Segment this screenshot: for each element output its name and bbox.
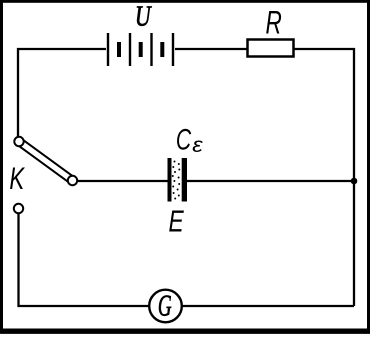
svg-text:E: E (169, 204, 185, 238)
wire top-left horizontal (corner to battery) (18, 49, 106, 136)
wire capacitor to junction (187, 180, 354, 182)
svg-text:C: C (176, 124, 192, 156)
capacitor left plate (168, 158, 172, 202)
switch open terminal circle lower (14, 204, 23, 213)
svg-text:ε: ε (192, 133, 204, 157)
node junction (351, 178, 358, 185)
battery short plate 3 (160, 42, 164, 57)
capacitor right plate (182, 158, 187, 202)
wire galvanometer to bottom-right (182, 305, 354, 307)
resistor R (248, 40, 294, 57)
battery long plate 3 (150, 33, 152, 66)
galvanometer G (149, 290, 182, 323)
battery long plate 2 (129, 33, 131, 66)
wire resistor to right corner, down right side (294, 49, 354, 306)
wire lower-left vertical (19, 214, 150, 307)
frame bottom edge (0, 329, 370, 334)
battery long plate 1 (107, 33, 109, 66)
switch terminal circle mid (68, 176, 77, 185)
capacitor C plates (168, 158, 188, 202)
svg-text:U: U (135, 2, 152, 32)
switch lever (19, 142, 73, 181)
svg-text:R: R (266, 5, 282, 41)
svg-text:K: K (9, 160, 25, 196)
wire switch to capacitor (78, 180, 168, 182)
battery short plate 2 (139, 42, 143, 57)
battery long plate 4 (172, 33, 174, 66)
svg-text:G: G (158, 288, 172, 323)
capacitor dielectric stipple E (172, 161, 181, 200)
wire battery to resistor (175, 48, 247, 50)
switch terminal circle top (14, 137, 23, 146)
battery short plate 1 (117, 42, 121, 57)
battery U (108, 33, 173, 66)
switch K (14, 137, 77, 213)
